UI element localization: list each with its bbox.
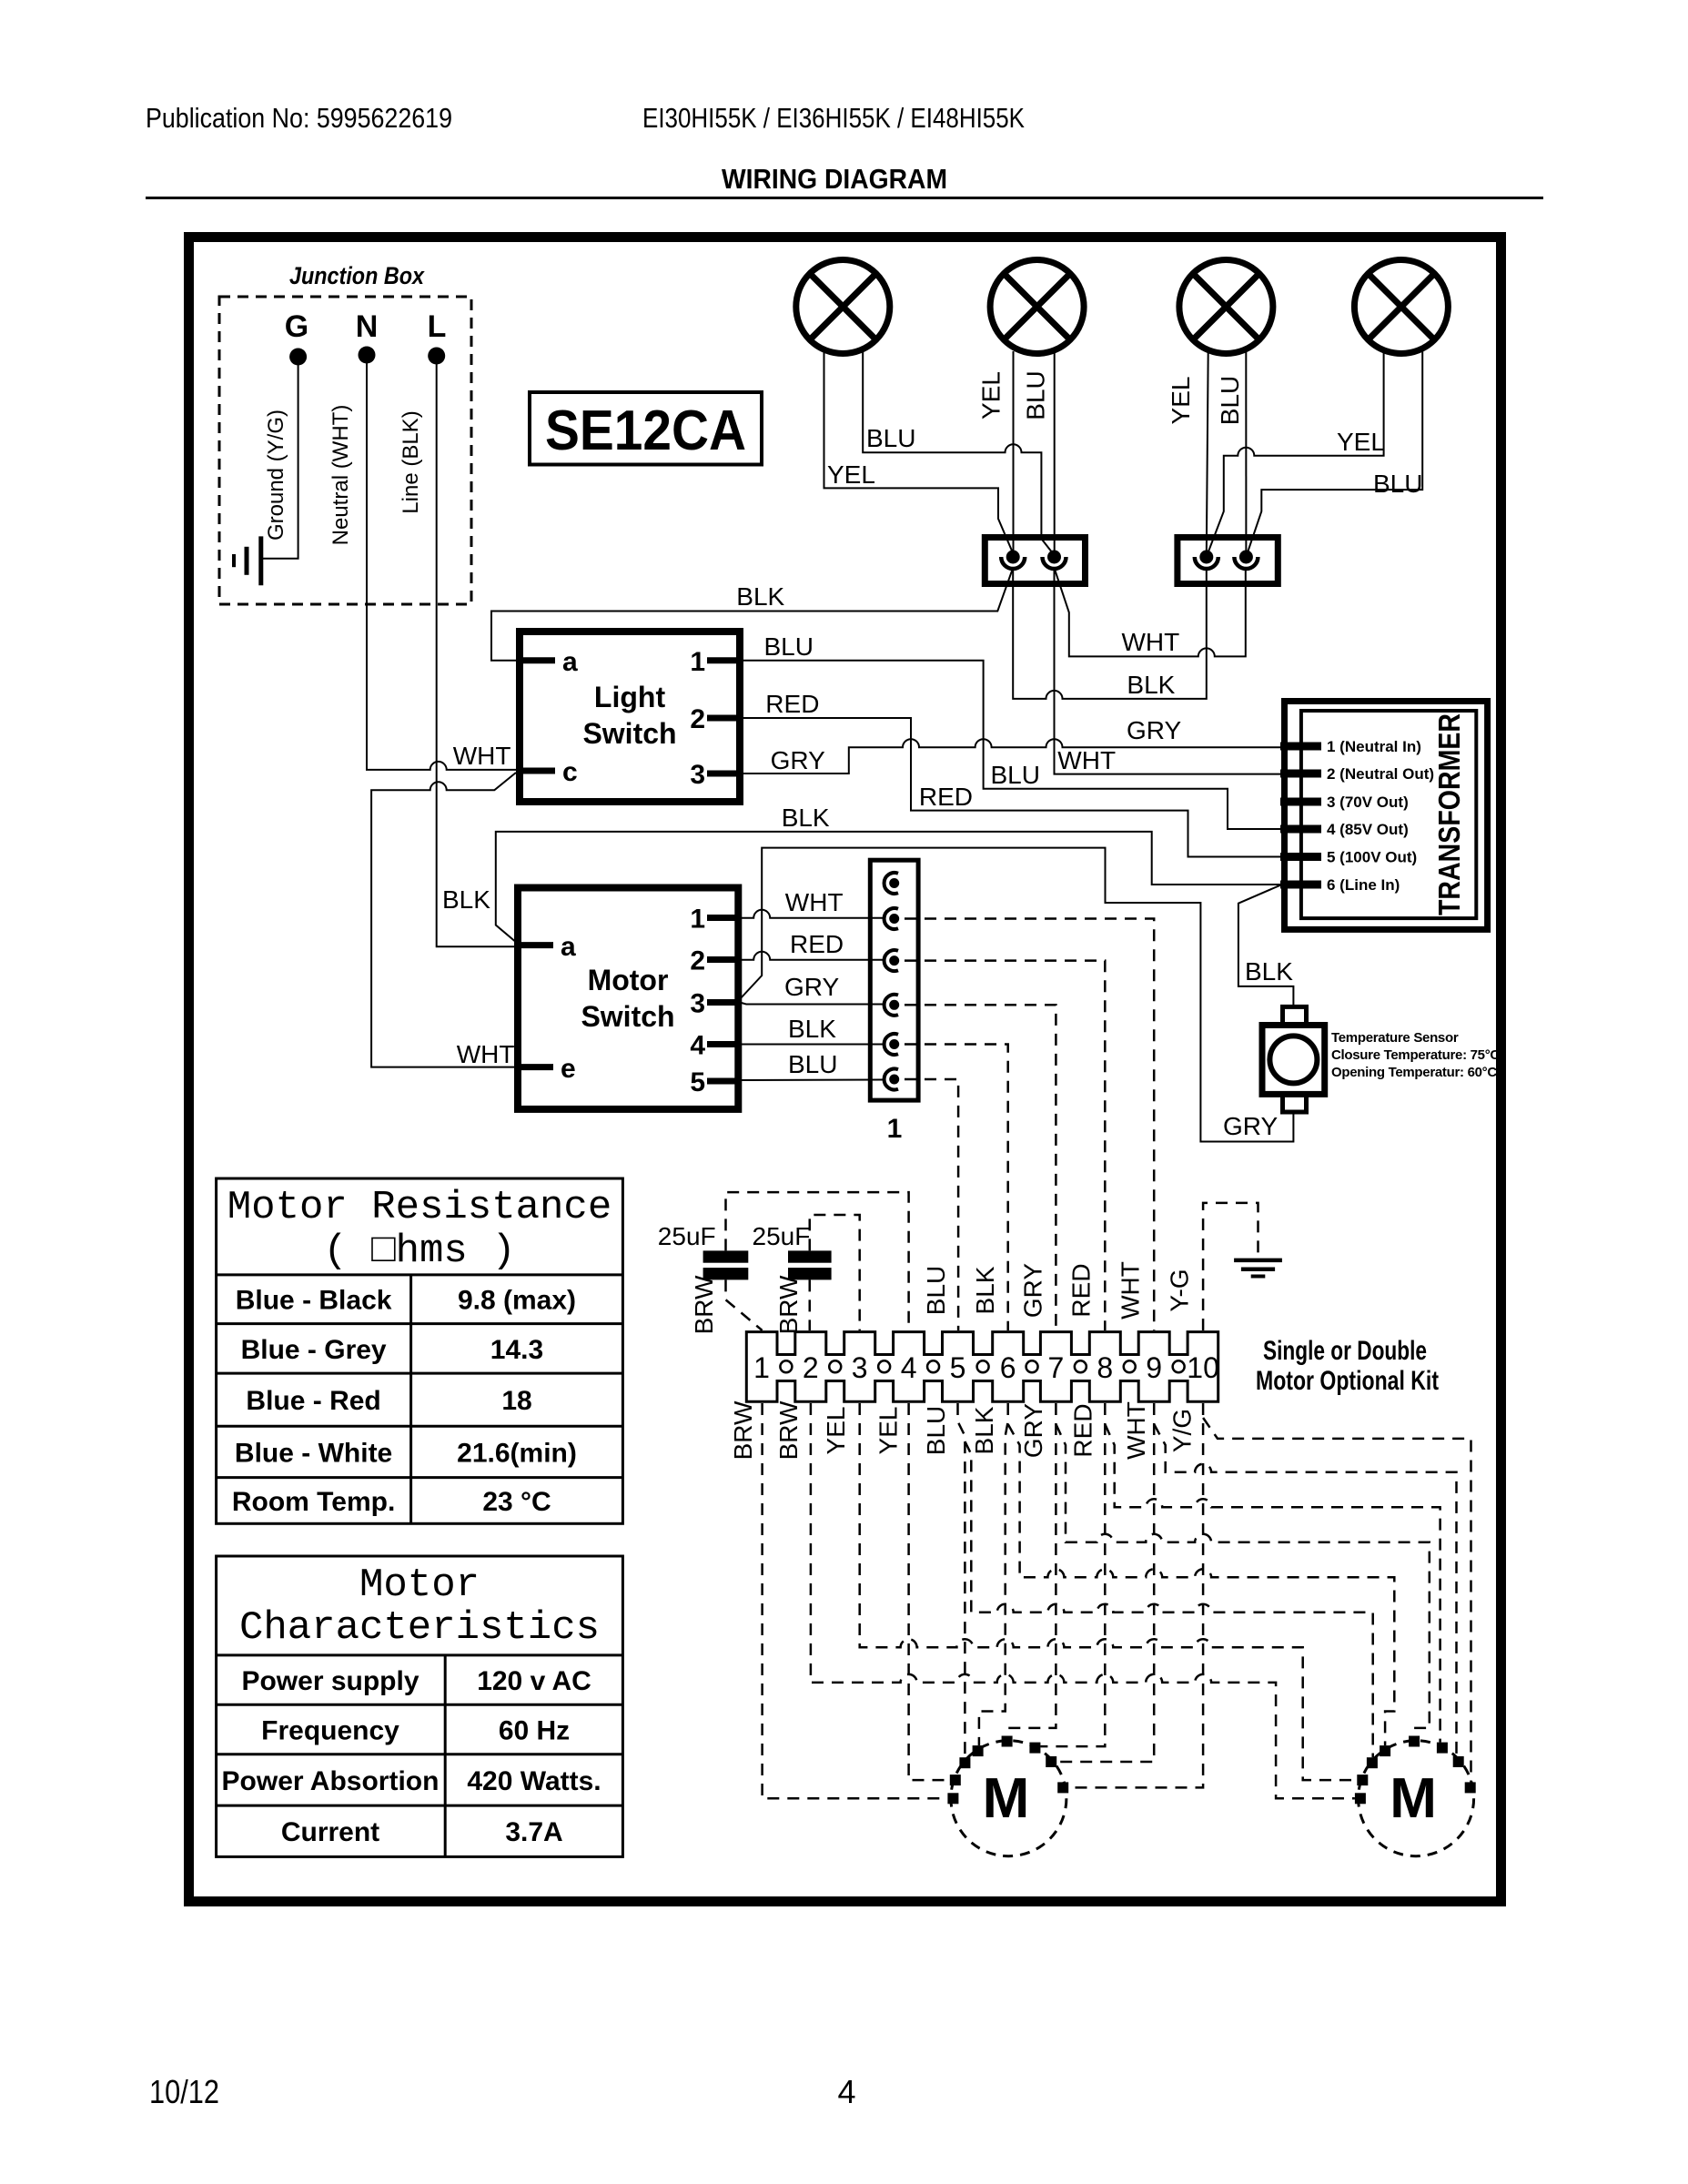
svg-text:BLU: BLU (1216, 376, 1244, 425)
diagram border frame (189, 238, 1501, 1902)
motor M1 terminal 12:00 (1002, 1736, 1013, 1747)
svg-text:N: N (356, 309, 379, 344)
wire WHT holder1-socket2 to transformer pin2 (1055, 568, 1282, 774)
motor switch pin 4 stub (707, 1041, 738, 1047)
svg-text:BLK: BLK (736, 582, 784, 611)
svg-text:YEL: YEL (827, 460, 875, 489)
motor resistance table rule (217, 1273, 623, 1276)
light switch pin 1 stub (707, 657, 740, 663)
svg-text:BRW: BRW (729, 1400, 757, 1460)
motor switch pin 3 stub (707, 999, 738, 1006)
svg-text:a: a (562, 647, 578, 677)
dashed wire WHT terminal9 to M1 (1056, 1403, 1154, 1762)
terminal strip separator circle 9 (1173, 1360, 1185, 1372)
svg-text:YEL: YEL (822, 1407, 850, 1455)
svg-text:Motor Optional Kit: Motor Optional Kit (1256, 1366, 1439, 1396)
svg-text:3: 3 (690, 989, 705, 1019)
svg-text:420 Watts.: 420 Watts. (467, 1766, 601, 1796)
light switch pin a stub (520, 657, 555, 663)
svg-text:5: 5 (690, 1067, 705, 1097)
dashed wire GRY connector to terminal 7 (905, 1005, 1056, 1330)
svg-text:BLU: BLU (764, 632, 814, 661)
svg-text:Line (BLK): Line (BLK) (399, 410, 423, 513)
motor characteristics table rule (217, 1805, 623, 1807)
dashed wire BRW terminal2 to M2 (811, 1403, 1355, 1798)
svg-text:c: c (562, 757, 578, 787)
svg-text:120 v AC: 120 v AC (477, 1666, 591, 1696)
terminal strip separator circle 7 (1075, 1360, 1087, 1372)
svg-text:8: 8 (1097, 1351, 1113, 1384)
motor M1 terminal 10:00 (959, 1757, 970, 1768)
wire BLK motor switch a to transformer pin6 (496, 832, 1281, 945)
motor characteristics table box (217, 1556, 623, 1856)
chassis ground symbol (1234, 1259, 1282, 1263)
svg-text:3: 3 (852, 1351, 868, 1384)
svg-text:5 (100V Out): 5 (100V Out) (1327, 849, 1417, 866)
svg-text:Neutral (WHT): Neutral (WHT) (329, 405, 353, 546)
light switch box (520, 632, 740, 802)
svg-text:Motor Resistance: Motor Resistance (227, 1185, 612, 1230)
motor switch pin 5 stub (707, 1078, 738, 1085)
wire YEL lamp4 to holder2 socket1 (1208, 351, 1384, 555)
wire YEL lamp1 to holder1 socket1 (824, 351, 1014, 553)
terminal strip separator circle 3 (878, 1360, 890, 1372)
motor M2 terminal 12:00 (1409, 1736, 1420, 1747)
wire GRY motor switch 3 to temp sensor (740, 848, 1293, 1142)
wire BLK holder1-socket1 to holder2-socket1 (1013, 568, 1207, 699)
motor characteristics table rule (217, 1753, 623, 1755)
lamp holder H2 (1178, 538, 1278, 584)
dashed wire RED terminal8 to M1 (1040, 1403, 1105, 1746)
svg-text:RED: RED (1067, 1263, 1096, 1317)
connector socket 6 (889, 1075, 899, 1085)
svg-text:1 (Neutral In): 1 (Neutral In) (1327, 738, 1421, 755)
svg-text:Motor: Motor (588, 964, 669, 996)
svg-text:Power supply: Power supply (241, 1666, 419, 1696)
svg-text:RED: RED (919, 783, 973, 811)
connector socket 1 (889, 878, 899, 888)
motor switch pin 2 stub (707, 956, 738, 963)
svg-text:BLK: BLK (442, 885, 490, 914)
connector socket 5 (889, 1039, 899, 1049)
dashed wire C1 bottom to terminal 1 (726, 1279, 763, 1330)
svg-text:Junction Box: Junction Box (289, 262, 425, 289)
svg-text:RED: RED (765, 690, 819, 718)
terminal strip separator circle 8 (1124, 1360, 1136, 1372)
svg-text:GRY: GRY (1127, 716, 1181, 744)
dashed wire RED connector to terminal 8 (905, 961, 1105, 1330)
lamp L1 (796, 260, 890, 354)
dashed wire YEL terminal4 to M1 (909, 1403, 950, 1780)
svg-text:Publication No: 5995622619: Publication No: 5995622619 (146, 102, 452, 134)
wire YEL lamp2 to holder1 socket1 (1013, 351, 1015, 555)
transformer pin 2 (Neutral Out) (1280, 770, 1321, 778)
svg-text:4: 4 (901, 1351, 917, 1384)
svg-text:M: M (1390, 1767, 1437, 1830)
motor M2 (dashed circle) (1359, 1741, 1474, 1856)
svg-text:10: 10 (1187, 1351, 1219, 1384)
light switch pin 2 stub (707, 715, 740, 722)
motor M1 (dashed circle) (951, 1741, 1066, 1856)
svg-text:Blue - Black: Blue - Black (236, 1286, 392, 1316)
label box SE12CA (530, 392, 762, 465)
motor resistance table rule (217, 1425, 623, 1428)
motor resistance table rule (217, 1372, 623, 1375)
wire BLK L to motor switch a (437, 362, 518, 946)
capacitor C1 25uF (703, 1250, 749, 1262)
motor switch pin a stub (518, 942, 553, 948)
svg-text:GRY: GRY (771, 746, 825, 774)
wire BLK motor switch 4 to connector (738, 1044, 883, 1046)
svg-text:Switch: Switch (581, 1000, 674, 1033)
svg-text:1: 1 (690, 905, 705, 935)
wire diagonal transformer pin6 to temp sensor top (1238, 885, 1294, 1005)
svg-text:BLU: BLU (866, 424, 915, 452)
svg-text:WIRING DIAGRAM: WIRING DIAGRAM (722, 163, 947, 195)
dashed wire C1 top to terminal 4 (726, 1192, 909, 1330)
dashed wire C2 bottom to terminal 2 (809, 1279, 812, 1330)
dashed wire BLK connector to terminal 6 (905, 1045, 1008, 1331)
ground symbol (258, 536, 263, 585)
lamp holder H1 (985, 538, 1085, 584)
svg-text:Switch: Switch (582, 717, 676, 750)
dashed wire WHT connector to terminal 9 (905, 919, 1154, 1331)
node L terminal dot (428, 348, 445, 365)
capacitor C2 25uF (788, 1250, 832, 1262)
svg-text:a: a (561, 932, 576, 962)
svg-text:Characteristics: Characteristics (239, 1605, 600, 1651)
dashed wire C2 top to terminal 3 (810, 1215, 860, 1330)
svg-text:4 (85V Out): 4 (85V Out) (1327, 821, 1409, 838)
svg-text:Closure Temperature: 75°C: Closure Temperature: 75°C (1331, 1047, 1500, 1063)
svg-text:WHT: WHT (457, 1040, 515, 1068)
dashed wire Y/G terminal10 to M1 (1068, 1403, 1203, 1787)
wire YEL lamp3 to holder2 socket1 (1207, 351, 1208, 555)
svg-text:Opening Temperatur: 60°C: Opening Temperatur: 60°C (1331, 1065, 1497, 1080)
svg-text:18: 18 (501, 1386, 531, 1416)
motor resistance table rule (217, 1322, 623, 1325)
transformer pin 6 (Line In) (1280, 881, 1321, 889)
svg-text:( □hms ): ( □hms ) (323, 1228, 515, 1274)
dashed wire Y-G terminal 10 to ground (1203, 1203, 1258, 1330)
svg-text:GRY: GRY (784, 973, 839, 1001)
motor resistance table rule (217, 1476, 623, 1479)
dashed wire BLU terminal5 to M1 (958, 1403, 965, 1757)
motor M1 terminal 3:00 (1057, 1782, 1068, 1793)
motor M1 terminal 9:00 (947, 1793, 958, 1804)
wire BLK holder1-socket1 to light switch a (491, 568, 1013, 661)
wire BLU lamp4 to holder2 socket2 (1247, 351, 1422, 555)
motor resistance table column divider (409, 1275, 412, 1523)
svg-text:Blue - White: Blue - White (235, 1438, 392, 1468)
motor characteristics table rule (217, 1704, 623, 1706)
svg-text:Single or Double: Single or Double (1263, 1336, 1427, 1366)
svg-text:2: 2 (803, 1351, 819, 1384)
connector socket 4 (889, 1000, 899, 1010)
light switch pin 3 stub (707, 771, 740, 777)
svg-text:BLU: BLU (922, 1266, 950, 1315)
svg-text:3.7A: 3.7A (505, 1817, 562, 1847)
svg-text:2: 2 (690, 946, 705, 976)
motor switch pin 1 stub (707, 915, 738, 921)
svg-text:Blue - Grey: Blue - Grey (241, 1335, 387, 1365)
svg-text:TRANSFORMER: TRANSFORMER (1432, 713, 1466, 915)
node G terminal dot (289, 349, 307, 366)
motor M2 terminal 3:00 (1465, 1782, 1476, 1793)
svg-text:BLU: BLU (991, 761, 1040, 789)
transformer pin 5 (100V Out) (1280, 853, 1321, 861)
svg-text:BLU: BLU (922, 1406, 950, 1455)
svg-text:10/12: 10/12 (149, 2073, 219, 2110)
dashed wire BLK terminal6 branch to M2 (1008, 1424, 1395, 1745)
svg-text:YEL: YEL (1337, 428, 1385, 456)
wire GRY light switch 3 to transformer pin1 (740, 739, 1281, 773)
svg-text:BLK: BLK (970, 1406, 998, 1454)
svg-text:WHT: WHT (1122, 1401, 1150, 1460)
wire BLU light switch 1 to transformer pin4 (740, 661, 1281, 829)
svg-text:14.3: 14.3 (490, 1335, 543, 1365)
terminal strip separator circle 1 (780, 1360, 792, 1372)
svg-text:BLK: BLK (788, 1015, 836, 1043)
svg-text:L: L (428, 309, 447, 344)
svg-text:WHT: WHT (453, 742, 511, 770)
transformer pin 3 (70V Out) (1280, 798, 1321, 806)
dashed wire RED terminal8 branch to M2 (1105, 1424, 1440, 1743)
motor switch pin e stub (518, 1064, 553, 1070)
svg-text:25uF: 25uF (753, 1222, 811, 1250)
svg-text:Y-G: Y-G (1166, 1269, 1194, 1311)
connector socket 2 (889, 914, 899, 924)
svg-text:BLK: BLK (1127, 671, 1175, 699)
svg-text:1: 1 (887, 1114, 903, 1144)
svg-text:SE12CA: SE12CA (545, 399, 746, 462)
dashed wire YEL terminal3 to M2 (860, 1403, 1358, 1780)
svg-text:3: 3 (690, 760, 705, 790)
svg-text:GRY: GRY (1019, 1263, 1047, 1318)
motor M2 terminal 11:00 (1380, 1745, 1390, 1756)
wire WHT motor switch 1 to connector (738, 910, 883, 918)
motor resistance table box (217, 1178, 623, 1523)
svg-text:Frequency: Frequency (261, 1716, 399, 1746)
motor characteristics column divider (444, 1655, 447, 1857)
dashed wire GRY terminal7 to M1 (1010, 1403, 1056, 1736)
header rule (146, 197, 1543, 199)
svg-text:RED: RED (790, 930, 844, 958)
transformer outer box (1285, 702, 1488, 930)
svg-text:4: 4 (690, 1031, 705, 1061)
svg-text:1: 1 (690, 647, 705, 677)
svg-text:6: 6 (1000, 1351, 1016, 1384)
svg-text:5: 5 (950, 1351, 966, 1384)
svg-text:G: G (285, 309, 308, 344)
terminal strip separator circle 4 (927, 1360, 939, 1372)
dashed wire BLU terminal5 branch to M2 (965, 1441, 1372, 1757)
svg-text:BLU: BLU (1373, 470, 1422, 498)
wire WHT holder1-socket2 to holder2-socket2 (1055, 568, 1246, 656)
terminal strip outline (746, 1332, 1218, 1402)
dashed wire Y/G terminal10 branch to M2 (1203, 1418, 1471, 1782)
motor M1 terminal 2:00 (1046, 1756, 1056, 1767)
svg-text:WHT: WHT (785, 888, 844, 916)
svg-text:7: 7 (1048, 1351, 1065, 1384)
terminal strip separator circle 2 (829, 1360, 841, 1372)
wire WHT N to light switch c (367, 362, 520, 770)
svg-text:Current: Current (281, 1817, 379, 1847)
wire GRY motor switch 3 to connector (740, 1003, 883, 1005)
svg-text:6 (Line In): 6 (Line In) (1327, 876, 1400, 894)
svg-text:Blue - Red: Blue - Red (246, 1386, 380, 1416)
transformer inner box (1301, 711, 1476, 918)
motor M1 terminal 1:00 (1029, 1743, 1040, 1754)
svg-text:EI30HI55K / EI36HI55K / EI48HI: EI30HI55K / EI36HI55K / EI48HI55K (642, 102, 1025, 134)
motor switch box (518, 888, 738, 1109)
motor M2 terminal 1:00 (1437, 1743, 1448, 1754)
svg-text:BLU: BLU (1021, 370, 1049, 420)
svg-text:e: e (561, 1054, 576, 1084)
svg-text:9: 9 (1146, 1351, 1162, 1384)
motor M2 terminal 9:30 (1357, 1774, 1368, 1785)
svg-text:M: M (983, 1767, 1030, 1830)
border corner mark (1485, 1893, 1503, 1906)
svg-text:Light: Light (594, 681, 666, 713)
dashed wire BRW terminal1 to M1 (763, 1403, 947, 1798)
motor characteristics table rule (217, 1653, 623, 1656)
wire RED motor switch 2 to connector (738, 952, 883, 960)
node N terminal dot (359, 347, 376, 364)
svg-text:BLK: BLK (971, 1266, 999, 1314)
wire BLU lamp1 to holder1 socket2 (863, 351, 1054, 555)
svg-text:RED: RED (1069, 1403, 1097, 1457)
svg-text:2 (Neutral Out): 2 (Neutral Out) (1327, 765, 1434, 783)
wire G to ground symbol (263, 362, 298, 559)
terminal strip separator circle 5 (977, 1360, 989, 1372)
transformer pin 4 (85V Out) (1280, 825, 1321, 834)
svg-text:BRW: BRW (774, 1275, 803, 1334)
dashed wire WHT terminal9 branch to M2 (1154, 1424, 1456, 1756)
junction box dashed outline (219, 297, 471, 604)
svg-text:Ground (Y/G): Ground (Y/G) (264, 409, 288, 541)
wire BLU lamp2 to holder1 socket2 (1054, 351, 1056, 555)
svg-text:3 (70V Out): 3 (70V Out) (1327, 794, 1409, 811)
lamp L2 (990, 260, 1084, 354)
terminal strip separator circle 6 (1026, 1360, 1038, 1372)
motor M2 terminal 2:00 (1453, 1756, 1464, 1767)
connector socket 3 (889, 955, 899, 966)
svg-text:YEL: YEL (1167, 377, 1195, 425)
wire BLU lamp3 to holder2 socket2 (1245, 351, 1247, 555)
motor M1 terminal 11:00 (973, 1745, 984, 1756)
svg-text:BRW: BRW (690, 1275, 718, 1334)
svg-text:2: 2 (690, 704, 705, 734)
svg-text:Power Absortion: Power Absortion (222, 1766, 440, 1796)
svg-text:60 Hz: 60 Hz (499, 1716, 570, 1746)
svg-text:WHT: WHT (1122, 628, 1180, 656)
svg-text:BLU: BLU (788, 1050, 837, 1078)
light switch pin c stub (520, 768, 555, 774)
svg-text:23 °C: 23 °C (482, 1487, 551, 1517)
svg-text:21.6(min): 21.6(min) (457, 1438, 577, 1468)
svg-text:WHT: WHT (1057, 746, 1116, 774)
motor M2 terminal 9:00 (1355, 1793, 1366, 1804)
dashed wire BLU connector to terminal 5 (905, 1079, 958, 1330)
temperature sensor (1262, 1006, 1325, 1112)
svg-text:Room Temp.: Room Temp. (232, 1487, 395, 1517)
svg-text:WHT: WHT (1117, 1261, 1145, 1319)
svg-text:BLK: BLK (782, 804, 830, 832)
connector strip box (870, 860, 918, 1100)
svg-text:GRY: GRY (1223, 1112, 1278, 1140)
lamp L3 (1179, 260, 1273, 354)
svg-text:GRY: GRY (1019, 1403, 1047, 1458)
dashed wire GRY terminal7 branch to M2 (1056, 1424, 1429, 1736)
svg-text:YEL: YEL (977, 371, 1006, 420)
svg-text:Temperature Sensor: Temperature Sensor (1331, 1030, 1459, 1046)
svg-text:Motor: Motor (359, 1562, 480, 1608)
svg-text:9.8 (max): 9.8 (max) (458, 1286, 576, 1316)
wire BLU motor switch 5 to connector (738, 1079, 883, 1082)
svg-text:Y/G: Y/G (1168, 1409, 1197, 1452)
svg-text:YEL: YEL (874, 1407, 903, 1455)
transformer pin 1 (Neutral In) (1280, 743, 1321, 751)
svg-text:BRW: BRW (774, 1400, 803, 1460)
svg-text:BLK: BLK (1245, 957, 1293, 986)
motor M1 terminal 9:30 (950, 1774, 961, 1785)
svg-text:4: 4 (838, 2073, 856, 2110)
motor M2 terminal 10:00 (1367, 1757, 1378, 1768)
wire WHT light switch c to motor switch e (371, 773, 518, 1067)
lamp L4 (1354, 260, 1448, 354)
svg-text:25uF: 25uF (658, 1222, 716, 1250)
svg-text:1: 1 (753, 1351, 770, 1384)
dashed wire BLK terminal6 to M1 (979, 1403, 1008, 1745)
wire RED light switch 2 to transformer pin5 (740, 718, 1281, 857)
